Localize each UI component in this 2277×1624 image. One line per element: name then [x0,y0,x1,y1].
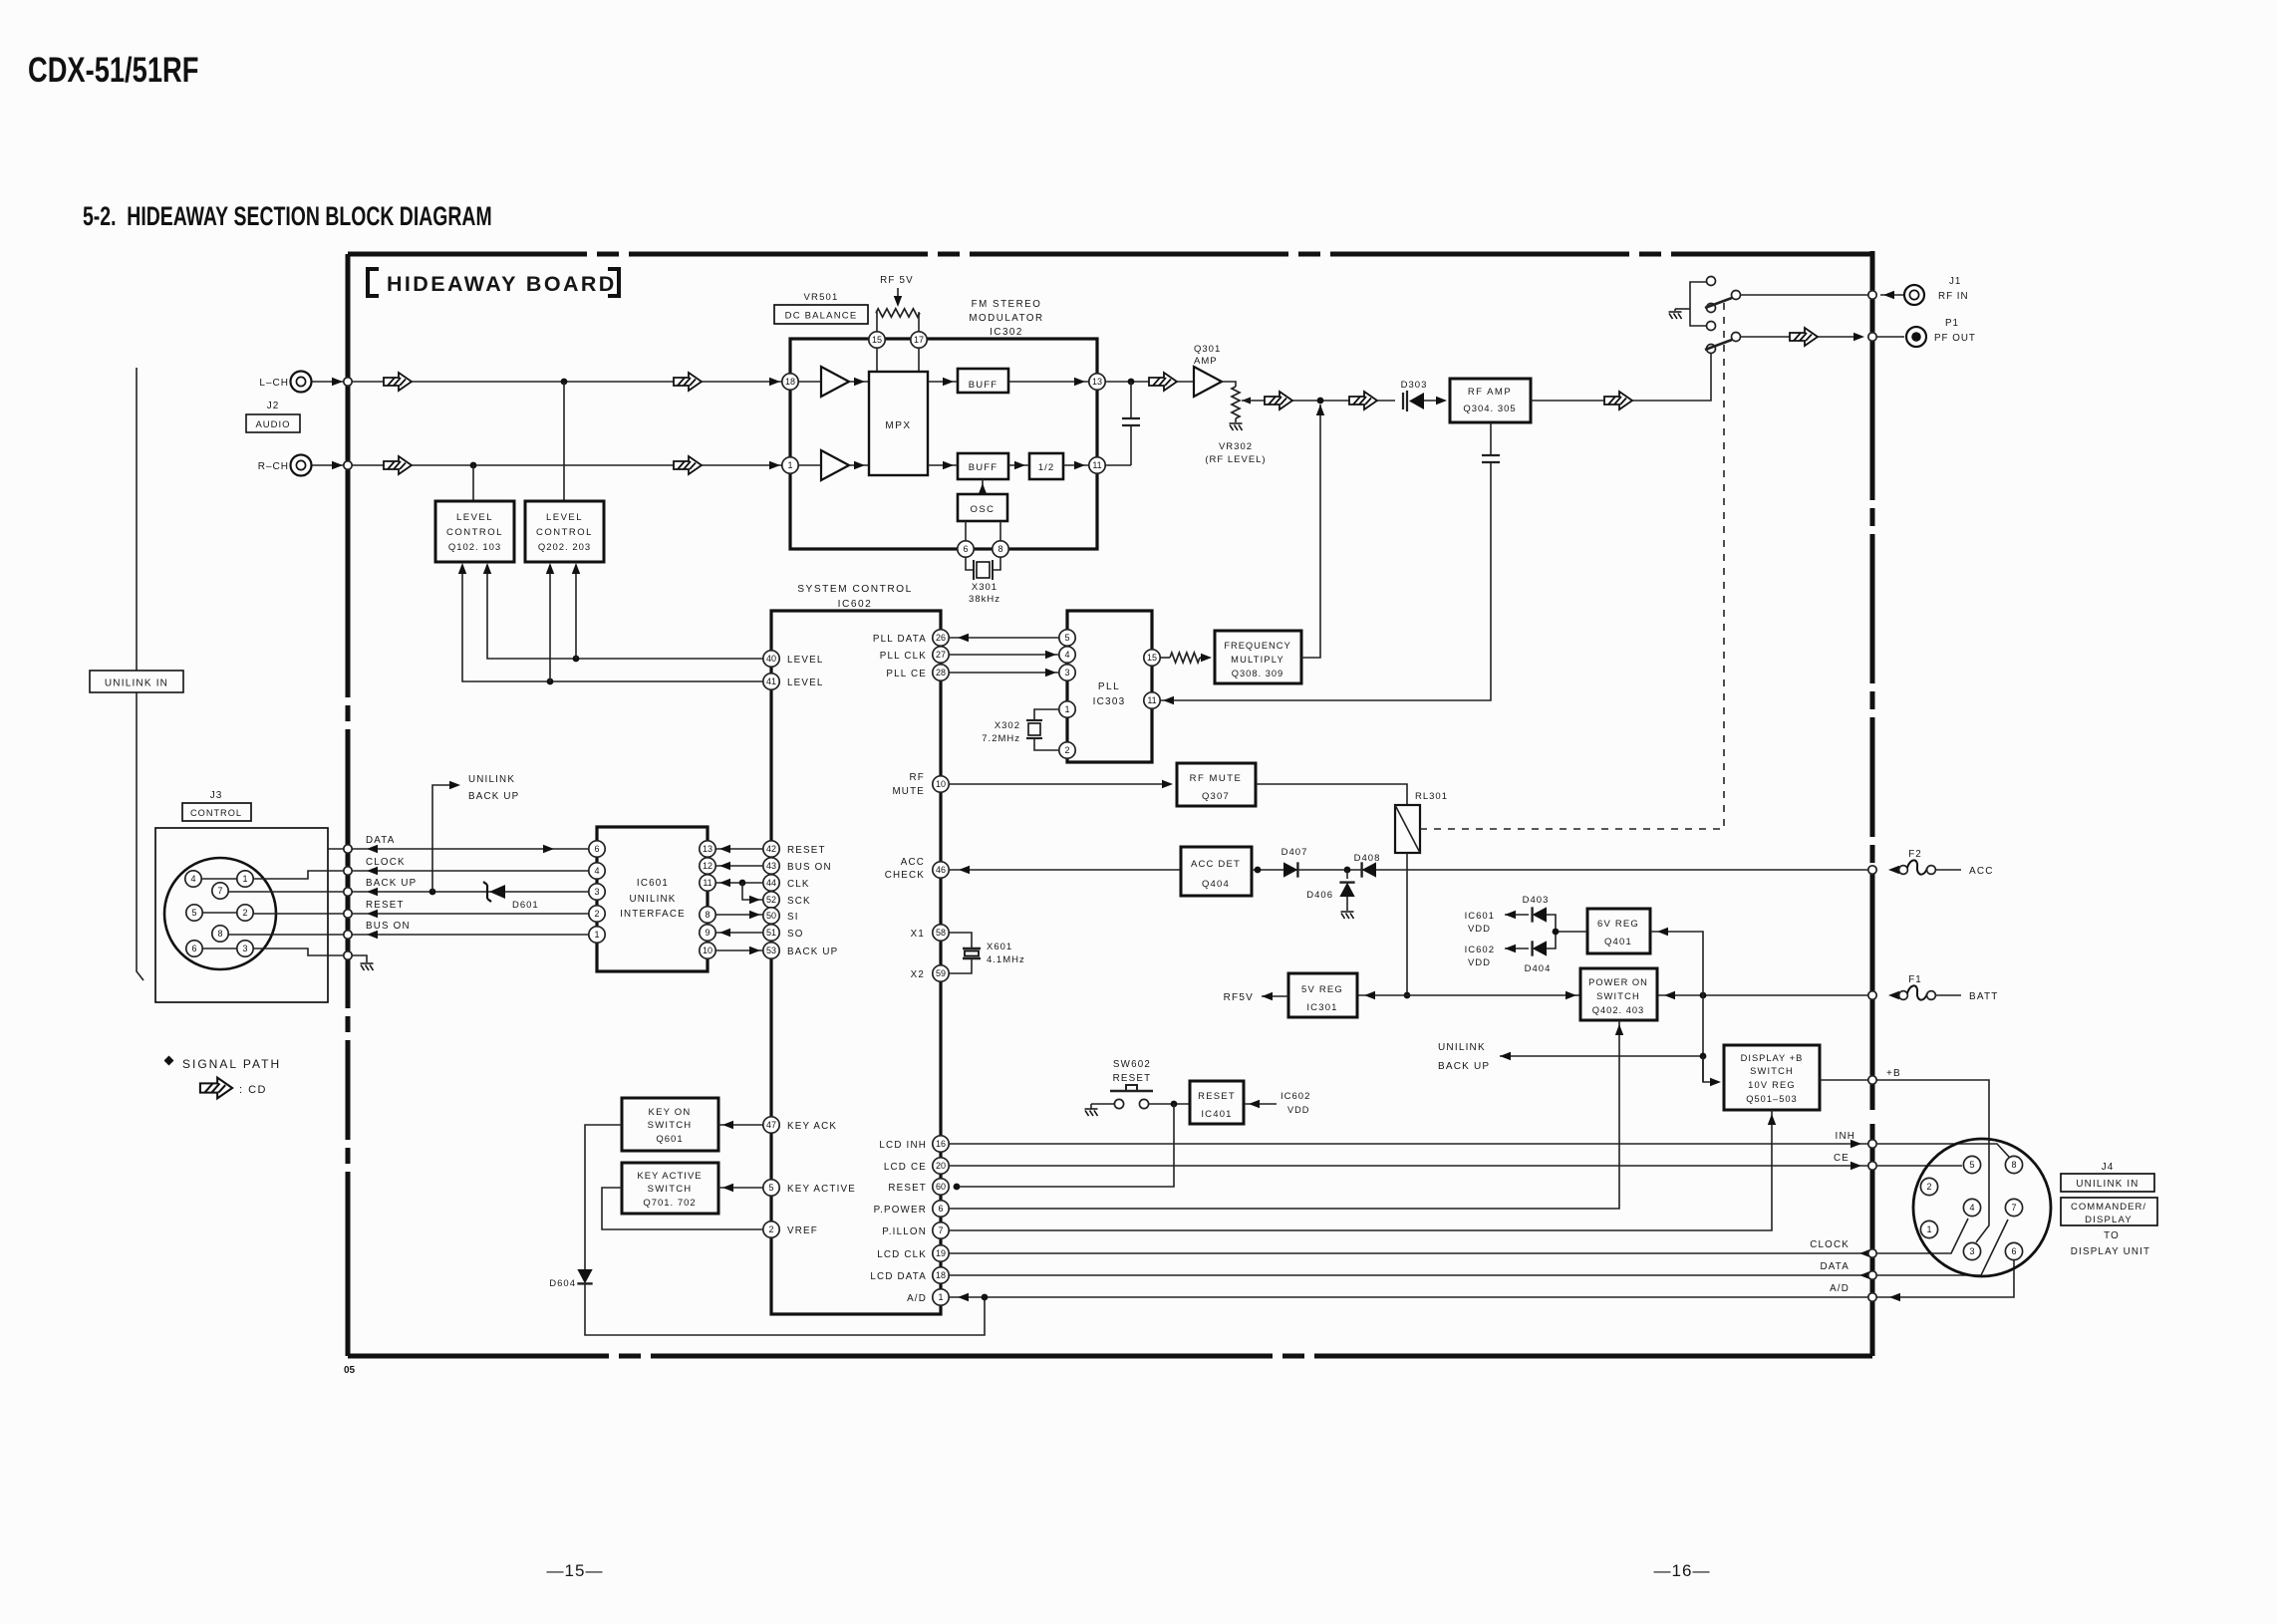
wire CLOCK to J4 pin 4 [1876,1218,1968,1253]
wire pin13 to Q301 amp [1105,381,1194,383]
wire riser to UNILINK BACK UP [432,785,456,892]
wire frequency multiply output to RF line [1301,405,1320,658]
wire J3 pin2 RESET exit [253,913,328,915]
svg-text:SW602: SW602 [1113,1059,1151,1070]
svg-text:11: 11 [1092,460,1101,470]
pin IC602-60 RESET [933,1179,949,1195]
pin J3-5 [186,905,202,921]
pin IC602-16 LCD INH [933,1136,949,1152]
svg-text:5V REG: 5V REG [1301,984,1343,995]
svg-text:TO: TO [2104,1230,2120,1241]
wire KEY ON SWITCH to D604 [585,1125,622,1269]
switch SW602 RESET [1085,1109,1098,1116]
pin IC602-58 X1 [933,925,949,941]
wire IC602 pin10 to RF MUTE [949,783,1170,785]
wire node to 5V REG [1357,994,1580,996]
svg-text:6: 6 [594,844,599,854]
node INH at board edge [1868,1140,1876,1148]
svg-text:38kHz: 38kHz [969,594,1000,605]
block 5V REG IC301 [1288,973,1357,1017]
pin IC302-6 [958,541,974,557]
svg-text:—16—: —16— [1654,1561,1711,1580]
pin IC601-13 right [700,841,715,857]
svg-text:RF: RF [910,772,925,783]
svg-text:MULTIPLY: MULTIPLY [1231,655,1284,665]
connector J3 housing [155,828,328,1002]
svg-text:BUS ON: BUS ON [787,862,832,873]
block RESET IC401 [1190,1081,1244,1124]
wire PLL DATA 26-5 [949,637,1059,639]
svg-text:3: 3 [242,944,247,953]
label VR501 DC BALANCE [774,305,868,324]
resistor R-PLL15 [1160,657,1170,659]
pin IC602-5 KEY ACTIVE [763,1180,779,1196]
svg-text:KEY ACK: KEY ACK [787,1121,837,1132]
svg-text:MUTE: MUTE [892,786,925,797]
svg-text:UNILINK: UNILINK [468,774,515,785]
svg-text:RESET: RESET [1113,1073,1152,1084]
svg-text:D604: D604 [549,1278,576,1289]
node DATA at board edge [344,845,352,853]
signal path arrow CD after RF AMP [1604,392,1632,409]
block IC601 UNILINK INTERFACE [597,827,708,971]
wire A/D line [949,1296,1868,1298]
legend CD arrow [200,1078,232,1099]
switch S1 contact A [1707,277,1716,286]
junction cap at pin13 line [1128,379,1135,386]
svg-text:AMP: AMP [1194,356,1218,367]
wire BUFF upper to pin 13 [1008,381,1089,383]
svg-text:D601: D601 [512,900,539,911]
pin J3-3 [237,941,253,956]
pin IC602-42 [763,841,779,857]
svg-text:UNILINK IN: UNILINK IN [2076,1179,2138,1190]
wire RF AMP bias to PLL pin 11 [1160,462,1491,700]
wire IC602 VDD into RESET IC401 [1245,1103,1277,1105]
transistor amp Q301 [1194,367,1222,397]
svg-text:1: 1 [787,460,792,470]
svg-text:F1: F1 [1908,974,1921,985]
signal path arrow CD on L-CH wire 2 [674,373,702,391]
wire pin1 to amp A2 [798,464,821,466]
diode D404 to IC602 VDD [1547,932,1556,948]
junction LEVEL 41 to Q202 [547,678,554,685]
svg-text:5: 5 [191,908,196,918]
svg-text:DC BALANCE: DC BALANCE [785,311,858,322]
potentiometer VR501 [876,309,920,317]
hideaway board outline right edge [1870,251,1875,1356]
node BACK UP at board edge [344,888,352,896]
pin IC601-12 right [700,858,715,874]
svg-text:CONTROL: CONTROL [446,527,503,538]
svg-text:51: 51 [766,928,776,938]
svg-text:2: 2 [768,1224,773,1234]
node BATT at board edge [1868,991,1876,999]
svg-text:A/D: A/D [907,1293,927,1304]
pin IC602-40 [763,651,779,667]
svg-text:10: 10 [703,946,712,955]
relay RL301 [1395,805,1420,853]
wire LCD CLK line [949,1252,1868,1254]
hideaway board outline top edge [348,252,1872,257]
svg-text:UNILINK IN: UNILINK IN [105,678,168,689]
op-amp buffer A1 (L-ch) inside IC302 [821,367,849,397]
svg-text:43: 43 [766,861,776,871]
diode D403 to IC601 VDD [1547,915,1587,932]
svg-text:RESET: RESET [787,845,826,856]
node RF IN at board edge [1868,291,1876,299]
wire J1 to node [1880,294,1904,296]
svg-text:SO: SO [787,929,804,940]
pin J4-8 [2005,1156,2022,1173]
svg-text:BUFF: BUFF [969,462,998,473]
svg-text:LEVEL: LEVEL [456,512,493,523]
wire OSC to pin 6 [965,521,967,541]
svg-text:PLL: PLL [1098,681,1120,692]
wire IC602 pin5 to KEY ACTIVE SWITCH [718,1187,763,1189]
svg-text:CONTROL: CONTROL [536,527,593,538]
node +B at board edge [1868,1076,1876,1084]
pin J3-7 [212,883,228,899]
wire P.ILLON to DISPLAY +B SWITCH [949,1110,1772,1230]
wire IC602 pin47 to KEY ON SWITCH [718,1124,763,1126]
fuse F2 [1899,866,1908,875]
wire node to P1 [1876,336,1904,338]
svg-text:X1: X1 [911,929,925,940]
node ground at board edge [344,951,352,959]
svg-text:SIGNAL PATH: SIGNAL PATH [182,1057,281,1071]
wire MPX to BUFF lower [928,464,958,466]
node A/D at board edge [1868,1293,1876,1301]
svg-text:8: 8 [217,929,222,939]
svg-text:UNILINK: UNILINK [1438,1042,1486,1053]
svg-text:IC302: IC302 [990,327,1023,338]
svg-text:05: 05 [344,1365,356,1376]
svg-text:7: 7 [217,886,222,896]
svg-text:3: 3 [1969,1246,1974,1256]
wire contact A to contact D [1690,282,1706,326]
svg-text:2: 2 [242,908,247,918]
pin IC601-9 right [700,925,715,941]
svg-text:16: 16 [936,1139,946,1149]
pin J3-6 [186,941,202,956]
fuse F1 [1899,991,1908,1000]
pin IC302-13 [1089,374,1105,390]
mechanical link dashed relay to switches [1420,302,1724,829]
pin IC303-15 [1144,650,1160,666]
node CE at board edge [1868,1162,1876,1170]
svg-text:11: 11 [703,878,712,888]
svg-text:20: 20 [936,1161,946,1171]
pin IC601-11 right [700,875,715,891]
junction BATT-6VREG riser [1700,992,1707,999]
wire UNILINK BACK UP tap [1500,1055,1703,1057]
svg-text:OSC: OSC [970,504,995,515]
svg-text:1: 1 [594,930,599,940]
svg-text:MODULATOR: MODULATOR [969,313,1043,324]
pin IC602-18 LCD DATA [933,1267,949,1283]
pin IC303-1 [1059,701,1075,717]
svg-text:RF AMP: RF AMP [1468,387,1512,398]
wire riser L-CH line to level control Q202 [563,382,565,501]
junction A/D to D604 return [982,1294,989,1301]
wire amp A2 to MPX [849,464,869,466]
wire DISPLAY +B to +B node [1820,1079,1868,1081]
wire riser into DISPLAY +B SWITCH [1703,1056,1718,1082]
svg-text:HIDEAWAY BOARD: HIDEAWAY BOARD [387,272,617,296]
wire IC601-9 to IC602-51 SO [715,932,763,934]
junction at ACC DET [1255,867,1262,874]
svg-text:60: 60 [936,1182,946,1192]
pin J4-2 [1920,1178,1937,1195]
svg-text:BACK UP: BACK UP [468,791,519,802]
svg-text:CDX-51/51RF: CDX-51/51RF [28,51,198,90]
svg-text:VR501: VR501 [803,292,838,303]
svg-text:1: 1 [242,874,247,884]
pin J3-8 [212,926,228,942]
svg-text:IC401: IC401 [1201,1109,1232,1120]
pin IC602-6 P.POWER [933,1201,949,1217]
svg-text:IC602: IC602 [838,599,873,610]
pin IC602-51 [763,925,779,941]
svg-text:4: 4 [1064,650,1069,660]
svg-text:15: 15 [1147,653,1157,663]
pin IC302-18 [782,374,798,390]
svg-text:46: 46 [936,865,946,875]
svg-text:IC602: IC602 [1465,945,1495,955]
pin IC602-59 X2 [933,965,949,981]
svg-text:CONTROL: CONTROL [190,808,242,818]
pin IC602-2 VREF [763,1221,779,1237]
svg-text:LCD DATA: LCD DATA [870,1271,927,1282]
diode D407 [1283,862,1297,877]
block KEY ACTIVE SWITCH Q701,702 [622,1163,718,1214]
switch S1 blade [1705,298,1732,308]
svg-text:SYSTEM CONTROL: SYSTEM CONTROL [797,584,913,595]
diode D604 [577,1269,592,1283]
svg-text:P.ILLON: P.ILLON [882,1226,927,1237]
svg-text:VREF: VREF [787,1225,818,1236]
svg-text:RF5V: RF5V [1224,992,1254,1003]
signal path arrow CD on R-CH wire 1 [384,456,412,474]
pin IC303-11 [1144,692,1160,708]
svg-text:42: 42 [766,844,776,854]
svg-text:CE: CE [1834,1153,1850,1164]
wire D604 to A/D line [585,1284,985,1335]
block DISPLAY +B SWITCH 10V REG Q501-503 [1724,1045,1820,1110]
block BUFF upper [958,369,1008,393]
junction R-CH to Q102 riser [470,462,477,469]
connector J2 L-CH jack [291,372,312,393]
switch S2 contact F [1707,345,1716,354]
signal path arrow CD before Q301 [1149,373,1177,391]
pin IC602-7 P.ILLON [933,1222,949,1238]
label COMMANDER DISPLAY [2061,1198,2157,1225]
svg-text:J3: J3 [210,790,223,801]
junction UNILINK BACK UP [1700,1053,1707,1060]
legend SIGNAL PATH [164,1056,174,1066]
svg-text:40: 40 [766,654,776,664]
switch S2 blade [1705,340,1732,350]
node R-CH at board edge [332,461,343,469]
crystal X601 4.1MHz [949,933,972,948]
pin IC601-8 right [700,907,715,923]
block divider 1/2 [1029,453,1063,479]
board label HIDEAWAY BOARD [368,269,379,296]
svg-text:D404: D404 [1525,963,1552,974]
wire L-CH to IC302 pin 18 [312,381,782,383]
wire J3 pin1 to CLOCK exit [253,871,328,879]
svg-text:1/2: 1/2 [1038,462,1054,473]
op-amp buffer A2 (R-ch) inside IC302 [821,450,849,480]
svg-text:SWITCH: SWITCH [1750,1066,1794,1076]
pin J4-5 [1963,1156,1980,1173]
svg-text:KEY ACTIVE: KEY ACTIVE [787,1184,856,1195]
svg-text:7: 7 [938,1225,943,1235]
svg-text:RF IN: RF IN [1938,291,1969,302]
svg-text:17: 17 [914,335,924,345]
wire IC302 pin15 to MPX [876,348,878,372]
svg-text:DISPLAY: DISPLAY [2085,1215,2133,1225]
svg-text:18: 18 [785,377,795,387]
svg-text:SWITCH: SWITCH [648,1120,693,1131]
junction 6VREG riser split [1553,929,1560,936]
pin IC602-46 ACC CHECK [933,862,949,878]
svg-text:D403: D403 [1523,895,1550,906]
svg-text:53: 53 [766,946,776,955]
svg-text:5-2. HIDEAWAY SECTION BLOCK D: 5-2. HIDEAWAY SECTION BLOCK DIAGRAM [83,201,492,231]
svg-text:Q701. 702: Q701. 702 [643,1198,696,1209]
svg-text:L–CH: L–CH [259,378,289,389]
pin IC602-41 [763,674,779,689]
wire IC302 pin17 to MPX [918,348,920,372]
pin IC302-1 [782,457,798,473]
svg-text:PF OUT: PF OUT [1934,333,1976,344]
crystal X301 38kHz [966,557,974,570]
svg-text:Q401: Q401 [1604,937,1632,947]
svg-text:Q304. 305: Q304. 305 [1463,404,1516,414]
wire IC601-12 to IC602-43 [715,865,763,867]
svg-text:DISPLAY UNIT: DISPLAY UNIT [2071,1246,2150,1257]
switch S2 contact D [1707,322,1716,331]
pin J3-1 [237,871,253,887]
svg-text:MPX: MPX [885,420,911,431]
wire CLOCK line [328,870,589,872]
signal path arrow CD before D303 [1349,392,1377,409]
wire pin11 to capacitor [1105,464,1131,466]
svg-text:3: 3 [1064,668,1069,677]
node ACC at board edge [1868,866,1876,874]
svg-text:INH: INH [1836,1131,1855,1142]
svg-text:15: 15 [872,335,882,345]
svg-text:52: 52 [766,895,776,905]
svg-text:58: 58 [936,928,946,938]
svg-text:A/D: A/D [1830,1283,1850,1294]
svg-text:10V REG: 10V REG [1748,1080,1796,1090]
svg-text:DISPLAY +B: DISPLAY +B [1741,1053,1804,1063]
svg-text:CLOCK: CLOCK [366,857,406,868]
pin IC602-19 LCD CLK [933,1245,949,1261]
svg-text:27: 27 [936,650,946,660]
svg-text:BACK UP: BACK UP [1438,1061,1490,1072]
wire J3 ground [328,955,367,962]
pin IC601-1 [589,927,605,943]
svg-text:RF 5V: RF 5V [880,275,914,286]
junction LEVEL 40 to Q202 [573,656,580,663]
wire MPX to BUFF upper [928,381,958,383]
pin IC602-27 [933,647,949,663]
svg-text:3: 3 [594,887,599,897]
svg-text:2: 2 [594,909,599,919]
svg-text:50: 50 [766,911,776,921]
pin IC303-2 [1059,742,1075,758]
svg-text:7: 7 [2011,1203,2016,1213]
svg-text:CLK: CLK [787,879,810,890]
pin IC602-10 RF MUTE [933,776,949,792]
svg-text:28: 28 [936,668,946,677]
svg-text:13: 13 [703,844,712,854]
node RESET at board edge [344,910,352,918]
capacitor C-IC302 out [1130,382,1132,418]
svg-text:PLL CE: PLL CE [886,669,927,679]
wire J3 pin3 ground exit [253,948,328,955]
svg-text:SI: SI [787,912,799,923]
block ACC DET Q404 [1181,847,1252,896]
connector J3 shell circle [164,858,276,969]
svg-text:5: 5 [1969,1160,1974,1170]
svg-text:Q601: Q601 [656,1134,683,1145]
svg-text:(RF LEVEL): (RF LEVEL) [1205,454,1266,465]
pin IC602-43 [763,858,779,874]
svg-text:4: 4 [594,866,599,876]
block FM STEREO MODULATOR IC302 [790,339,1097,549]
svg-text:18: 18 [936,1270,946,1280]
svg-text:—15—: —15— [547,1561,604,1580]
svg-text:PLL DATA: PLL DATA [873,634,927,645]
junction D406 tap [1344,867,1351,874]
svg-text:: CD: : CD [239,1084,267,1096]
svg-text:IC301: IC301 [1306,1002,1337,1013]
wire J3 pin5 to pin2 [202,912,237,914]
wire 6V REG input from BATT riser [1650,932,1703,1082]
svg-text:FM STEREO: FM STEREO [972,299,1042,310]
svg-text:R–CH: R–CH [258,461,289,472]
pin IC602-1 A/D [933,1289,949,1305]
block MPX [869,372,928,475]
wire RF 5V down to VR501 [897,288,899,304]
svg-text:6: 6 [2011,1246,2016,1256]
junction CLK to SCK [739,880,746,887]
pin J4-7 [2005,1199,2022,1216]
svg-text:IC602: IC602 [1281,1091,1310,1102]
diode D408 [1362,862,1376,877]
wire J3 pin4 to pin1 [201,878,237,880]
pin J4-3 [1963,1242,1980,1259]
svg-text:LCD INH: LCD INH [879,1140,927,1151]
svg-text:RESET: RESET [888,1183,927,1194]
svg-text:J4: J4 [2102,1162,2115,1173]
wire R-CH to IC302 pin 1 [312,464,782,466]
wire CE to J4 pin 5 [1876,1165,1962,1167]
svg-text:FREQUENCY: FREQUENCY [1224,641,1290,651]
svg-text:P1: P1 [1945,318,1959,329]
svg-text:AUDIO: AUDIO [255,419,290,430]
switch S1 contact C [1707,304,1716,313]
svg-text:P.POWER: P.POWER [874,1205,927,1216]
svg-text:LEVEL: LEVEL [546,512,583,523]
svg-text:+B: +B [1886,1068,1901,1079]
svg-text:D406: D406 [1306,890,1333,901]
